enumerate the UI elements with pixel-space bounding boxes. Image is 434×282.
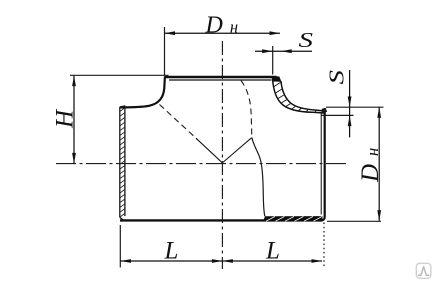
svg-text:S: S (325, 69, 349, 84)
svg-text:H: H (52, 108, 79, 129)
svg-text:L: L (164, 238, 179, 265)
svg-text:L: L (265, 238, 280, 265)
svg-text:S: S (299, 28, 314, 52)
